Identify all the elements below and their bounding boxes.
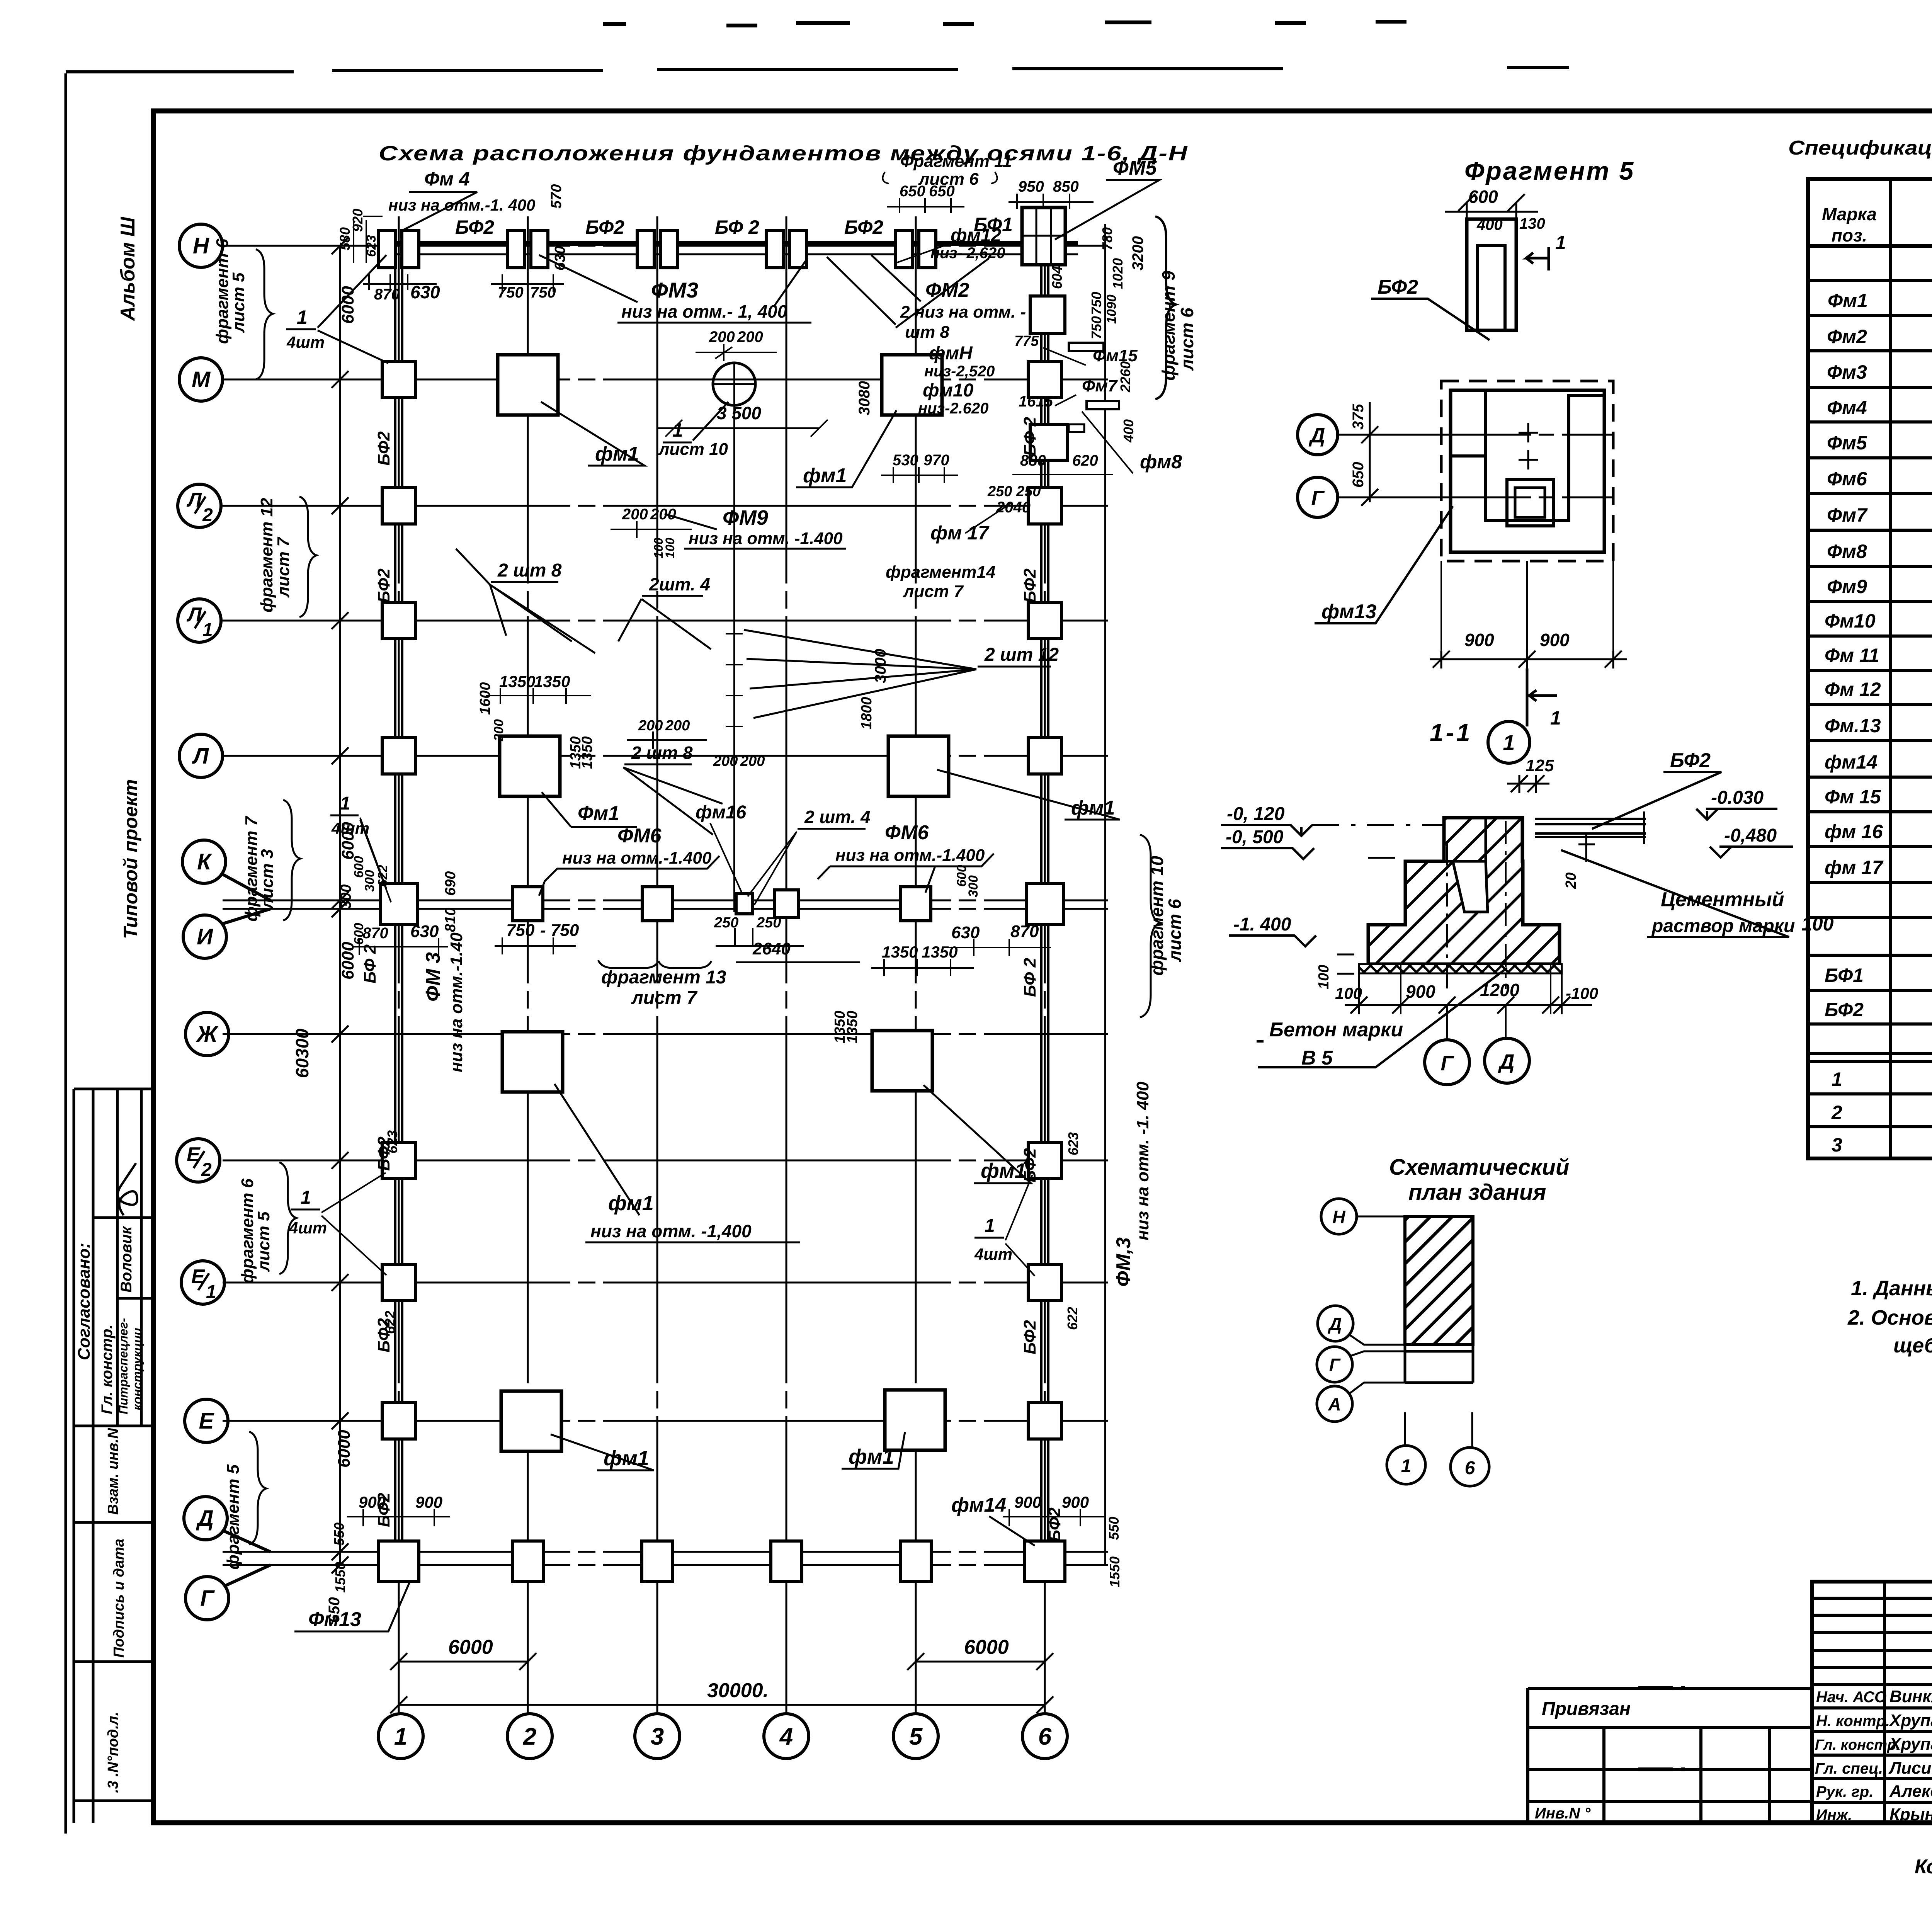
svg-text:623: 623 bbox=[1065, 1132, 1081, 1155]
svg-text:1: 1 bbox=[301, 1187, 311, 1208]
svg-text:БФ2: БФ2 bbox=[374, 431, 393, 466]
svg-text:Фм 12: Фм 12 bbox=[1825, 679, 1881, 700]
svg-text:лист 5: лист 5 bbox=[229, 272, 248, 333]
svg-text:200: 200 bbox=[622, 506, 648, 523]
cross bolts on x=1900 bbox=[726, 625, 743, 642]
svg-text:Копировал Коннова: Копировал Коннова bbox=[1915, 1856, 1932, 1878]
svg-text:БФ2: БФ2 bbox=[455, 216, 494, 238]
svg-text:Привязан: Привязан bbox=[1542, 1699, 1631, 1719]
svg-text:Фм5: Фм5 bbox=[1827, 432, 1867, 454]
svg-text:Фм9: Фм9 bbox=[1827, 576, 1867, 597]
inner pocket white bbox=[1453, 861, 1488, 912]
svg-text:125: 125 bbox=[1526, 756, 1554, 775]
svg-text:Гл. констр.: Гл. констр. bbox=[1815, 1737, 1900, 1753]
row lines bbox=[1808, 281, 1932, 1127]
svg-text:Алекова: Алекова bbox=[1889, 1782, 1932, 1801]
svg-text:775: 775 bbox=[1014, 333, 1039, 349]
svg-text:А: А bbox=[1328, 1394, 1341, 1414]
svg-text:В 5: В 5 bbox=[1301, 1047, 1333, 1069]
svg-text:250: 250 bbox=[987, 483, 1012, 500]
svg-text:Д: Д bbox=[196, 1506, 214, 1531]
svg-text:2: 2 bbox=[201, 1160, 212, 1180]
svg-text:ФМ6: ФМ6 bbox=[885, 822, 929, 844]
svg-text:Н: Н bbox=[1332, 1207, 1345, 1227]
svg-text:-100: -100 bbox=[1566, 984, 1598, 1002]
svg-text:Цементный: Цементный bbox=[1661, 888, 1784, 911]
svg-text:Бетон марки: Бетон марки bbox=[1269, 1019, 1403, 1041]
svg-text:100: 100 bbox=[663, 538, 677, 558]
sheet outer border left bbox=[65, 73, 67, 1834]
svg-text:К: К bbox=[197, 849, 212, 874]
svg-text:Фм.13: Фм.13 bbox=[1825, 715, 1881, 737]
svg-text:Ж: Ж bbox=[196, 1022, 219, 1047]
svg-text:2 шт 8: 2 шт 8 bbox=[497, 560, 562, 581]
svg-text:Гл. спец.: Гл. спец. bbox=[1815, 1760, 1883, 1777]
svg-text:870: 870 bbox=[374, 286, 400, 303]
solid square bbox=[1451, 390, 1604, 552]
svg-text:4шт: 4шт bbox=[286, 333, 325, 351]
svg-text:1020: 1020 bbox=[1110, 258, 1126, 289]
svg-text:1550: 1550 bbox=[1107, 1556, 1122, 1587]
row H paired footings bbox=[379, 230, 396, 268]
svg-text:фрагмент 13: фрагмент 13 bbox=[601, 967, 726, 988]
svg-text:БФ 2: БФ 2 bbox=[1020, 417, 1039, 456]
svg-text:100: 100 bbox=[1316, 965, 1332, 989]
sheet outer border top (dashed scan) bbox=[66, 68, 1569, 72]
svg-text:200: 200 bbox=[709, 328, 735, 345]
svg-text:920: 920 bbox=[350, 209, 366, 232]
vertical foundation beams axis 1 and 6 bbox=[395, 255, 402, 1552]
svg-text:низ на отм.-1. 400: низ на отм.-1. 400 bbox=[388, 196, 535, 214]
svg-text:фм8: фм8 bbox=[1140, 451, 1182, 473]
svg-text:1600: 1600 bbox=[477, 682, 493, 715]
svg-text:низ на отм. -1,400: низ на отм. -1,400 bbox=[590, 1221, 752, 1241]
svg-text:Альбом Ш: Альбом Ш bbox=[117, 216, 139, 321]
svg-text:2640: 2640 bbox=[752, 939, 791, 958]
svg-text:фм1: фм1 bbox=[595, 443, 639, 465]
svg-text:БФ 2: БФ 2 bbox=[1020, 958, 1039, 997]
svg-text:М: М bbox=[192, 367, 211, 392]
svg-text:фм12: фм12 bbox=[951, 225, 1002, 246]
svg-text:200: 200 bbox=[638, 718, 663, 734]
svg-text:Фм7: Фм7 bbox=[1827, 504, 1868, 526]
svg-text:Фм10: Фм10 bbox=[1825, 610, 1876, 632]
svg-text:Инж.: Инж. bbox=[1816, 1806, 1852, 1823]
svg-text:130: 130 bbox=[1519, 215, 1545, 232]
svg-text:750: 750 bbox=[1088, 292, 1104, 315]
dashed outer square bbox=[1441, 381, 1613, 561]
svg-text:1800: 1800 bbox=[859, 697, 875, 730]
svg-text:200: 200 bbox=[650, 506, 676, 523]
svg-text:250: 250 bbox=[756, 915, 781, 931]
svg-text:Фрагмент 5: Фрагмент 5 bbox=[1464, 156, 1635, 185]
svg-text:2: 2 bbox=[1831, 1102, 1842, 1123]
svg-text:лист 6: лист 6 bbox=[1165, 899, 1185, 962]
fm10 footing on axis 6 bbox=[1030, 424, 1067, 460]
svg-text:Питраспецлег-: Питраспецлег- bbox=[116, 1318, 130, 1414]
bottom column circles bbox=[378, 1714, 1067, 1759]
svg-text:Г: Г bbox=[1311, 486, 1325, 510]
svg-text:фм 16: фм 16 bbox=[1825, 821, 1883, 842]
svg-text:Типовой проект: Типовой проект bbox=[120, 779, 141, 939]
svg-text:900: 900 bbox=[1540, 630, 1570, 650]
svg-text:лист 7: лист 7 bbox=[274, 536, 293, 598]
svg-text:поз.: поз. bbox=[1832, 225, 1867, 245]
svg-text:лист 5: лист 5 bbox=[254, 1211, 273, 1272]
svg-text:лист 7: лист 7 bbox=[631, 988, 698, 1008]
svg-text:1350: 1350 bbox=[882, 943, 918, 961]
bottom circles 1 6 bbox=[1405, 1412, 1472, 1447]
svg-text:Г: Г bbox=[200, 1586, 215, 1611]
svg-text:фм13: фм13 bbox=[1321, 600, 1376, 623]
M row section circle bbox=[713, 363, 755, 405]
svg-text:БФ2: БФ2 bbox=[585, 216, 624, 238]
svg-text:Д: Д bbox=[1327, 1314, 1342, 1334]
svg-text:Фрагмент 11: Фрагмент 11 bbox=[900, 152, 1012, 171]
svg-text:-0, 120: -0, 120 bbox=[1227, 804, 1285, 824]
svg-text:20: 20 bbox=[1563, 873, 1579, 889]
svg-text:375: 375 bbox=[1350, 404, 1367, 430]
svg-text:низ на отм. -1. 400: низ на отм. -1. 400 bbox=[1133, 1082, 1152, 1240]
svg-text:конструкции: конструкции bbox=[130, 1328, 144, 1410]
svg-text:1. Данный лист рассматрива: 1. Данный лист рассматривать совместно с… bbox=[1851, 1277, 1932, 1300]
svg-text:ФМ5: ФМ5 bbox=[1113, 157, 1157, 179]
svg-text:ФМ,3: ФМ,3 bbox=[1112, 1237, 1135, 1287]
big Fm1 squares bbox=[498, 355, 558, 415]
bottom dims bbox=[1359, 964, 1562, 1014]
svg-text:Согласовано:: Согласовано: bbox=[75, 1243, 94, 1360]
svg-text:622: 622 bbox=[1065, 1307, 1080, 1330]
svg-text:Спецификация к схеме располож: Спецификация к схеме расположения фундам… bbox=[1788, 137, 1932, 159]
svg-text:650: 650 bbox=[1350, 462, 1367, 488]
svg-text:1: 1 bbox=[1550, 707, 1561, 729]
svg-text:200: 200 bbox=[665, 718, 690, 734]
svg-text:-0,480: -0,480 bbox=[1724, 825, 1777, 846]
svg-text:Е: Е bbox=[199, 1408, 215, 1434]
svg-text:лист 7: лист 7 bbox=[903, 582, 964, 601]
svg-text:2260: 2260 bbox=[1117, 361, 1133, 393]
svg-text:фм1: фм1 bbox=[803, 464, 847, 487]
svg-text:БФ2: БФ2 bbox=[374, 568, 393, 603]
svg-text:870: 870 bbox=[1010, 922, 1039, 941]
dashed floor level line bbox=[1312, 825, 1445, 858]
svg-text:1: 1 bbox=[297, 306, 308, 328]
K/I row footings bbox=[381, 884, 417, 924]
svg-text:Нач. АСО: Нач. АСО bbox=[1816, 1689, 1886, 1706]
svg-text:Д: Д bbox=[1309, 424, 1325, 447]
svg-text:низ на отм.-1.400: низ на отм.-1.400 bbox=[835, 846, 985, 865]
left small table bbox=[1528, 1688, 1812, 1823]
svg-text:БФ2: БФ2 bbox=[374, 1136, 393, 1171]
svg-text:30000.: 30000. bbox=[707, 1679, 769, 1702]
svg-text:Фм4: Фм4 bbox=[1827, 397, 1867, 418]
svg-text:Крынкина: Крынкина bbox=[1889, 1805, 1932, 1824]
svg-text:1200: 1200 bbox=[1480, 980, 1520, 1000]
svg-text:1: 1 bbox=[1503, 730, 1515, 755]
svg-text:3080: 3080 bbox=[856, 381, 873, 415]
svg-text:1-1: 1-1 bbox=[1430, 719, 1473, 747]
svg-text:Гл. констр.: Гл. констр. bbox=[99, 1325, 116, 1414]
svg-text:низ на отм. -1.400: низ на отм. -1.400 bbox=[689, 529, 843, 548]
svg-text:3: 3 bbox=[651, 1723, 664, 1750]
svg-text:900: 900 bbox=[1464, 630, 1494, 650]
svg-text:200: 200 bbox=[713, 753, 738, 769]
vertical dimension chain bbox=[323, 237, 357, 1573]
svg-text:Фм 11: Фм 11 bbox=[1825, 645, 1879, 666]
BF2 beam right bbox=[1535, 811, 1646, 844]
svg-text:620: 620 bbox=[1072, 452, 1098, 469]
svg-text:630: 630 bbox=[410, 922, 439, 941]
svg-text:750: 750 bbox=[1088, 316, 1104, 339]
svg-text:1: 1 bbox=[1555, 232, 1566, 253]
svg-text:6000: 6000 bbox=[338, 942, 357, 980]
column lines bbox=[1890, 179, 1932, 1158]
svg-text:750: 750 bbox=[506, 921, 535, 940]
header bottom bbox=[1808, 244, 1932, 248]
svg-text:Фм8: Фм8 bbox=[1827, 541, 1867, 562]
svg-text:ФМ3: ФМ3 bbox=[651, 278, 698, 302]
svg-text:БФ2: БФ2 bbox=[1020, 1148, 1039, 1182]
svg-text:фрагмент 9: фрагмент 9 bbox=[1158, 270, 1179, 381]
svg-text:2 шт. 4: 2 шт. 4 bbox=[804, 807, 871, 827]
svg-text:низ-2.620: низ-2.620 bbox=[918, 400, 988, 417]
svg-text:1: 1 bbox=[985, 1216, 995, 1236]
svg-text:БФ2: БФ2 bbox=[1045, 1507, 1064, 1542]
svg-text:ФМ6: ФМ6 bbox=[617, 825, 662, 847]
svg-text:шт 8: шт 8 bbox=[905, 323, 949, 342]
svg-text:970: 970 bbox=[923, 452, 949, 469]
svg-text:Инв.N °: Инв.N ° bbox=[1535, 1805, 1591, 1822]
svg-text:план здания: план здания bbox=[1408, 1180, 1546, 1205]
svg-text:фрагмент 12: фрагмент 12 bbox=[257, 498, 276, 612]
svg-text:ФМ9: ФМ9 bbox=[723, 506, 768, 529]
svg-text:Г: Г bbox=[1329, 1355, 1341, 1375]
svg-text:БФ2: БФ2 bbox=[1670, 749, 1711, 772]
svg-text:3200: 3200 bbox=[1129, 236, 1146, 270]
svg-text:3 500: 3 500 bbox=[717, 403, 762, 423]
svg-text:100: 100 bbox=[1335, 984, 1362, 1002]
svg-text:Воловик: Воловик bbox=[118, 1226, 135, 1293]
svg-text:Лисичкин: Лисичкин bbox=[1888, 1759, 1932, 1778]
svg-text:300: 300 bbox=[338, 885, 354, 909]
svg-text:650: 650 bbox=[929, 183, 955, 200]
svg-text:Схематический: Схематический bbox=[1389, 1155, 1569, 1180]
svg-text:низ-2,520: низ-2,520 bbox=[924, 363, 995, 380]
svg-text:750: 750 bbox=[530, 284, 556, 301]
svg-text:щебнем.: щебнем. bbox=[1893, 1334, 1932, 1357]
fm12 footing on axis 6 bbox=[1030, 296, 1065, 333]
data rows: mark / oboz / name / qty / mass bbox=[1825, 288, 1932, 1156]
svg-text:БФ2: БФ2 bbox=[374, 1318, 393, 1352]
svg-text:300: 300 bbox=[362, 870, 377, 892]
edge footings on axes 1 and 6 bbox=[382, 361, 415, 398]
svg-text:БФ2: БФ2 bbox=[844, 216, 883, 238]
svg-text:Г: Г bbox=[1440, 1052, 1454, 1075]
svg-text:фрагмент 5: фрагмент 5 bbox=[224, 1464, 243, 1570]
svg-text:БФ 2: БФ 2 bbox=[361, 944, 379, 983]
svg-text:900: 900 bbox=[415, 1493, 442, 1511]
svg-text:Фм3: Фм3 bbox=[1827, 361, 1867, 383]
svg-text:- 750: - 750 bbox=[540, 921, 579, 940]
svg-text:БФ1: БФ1 bbox=[1825, 964, 1864, 986]
svg-text:Подпись и дата: Подпись и дата bbox=[111, 1539, 127, 1658]
axis letter circles bbox=[177, 224, 270, 1620]
svg-text:400: 400 bbox=[1121, 419, 1136, 443]
svg-text:лист 6: лист 6 bbox=[1177, 308, 1197, 371]
svg-text:622: 622 bbox=[376, 865, 390, 887]
horizontal axis lines bbox=[223, 246, 1108, 1565]
svg-text:900: 900 bbox=[1062, 1493, 1089, 1511]
svg-text:лист 3: лист 3 bbox=[258, 849, 277, 910]
svg-text:2: 2 bbox=[202, 505, 213, 526]
svg-text:1: 1 bbox=[1401, 1456, 1412, 1476]
svg-text:630: 630 bbox=[951, 923, 980, 942]
svg-text:3000: 3000 bbox=[872, 649, 889, 683]
ground hatched strip bbox=[1359, 964, 1562, 973]
svg-text:БФ 2: БФ 2 bbox=[715, 216, 759, 238]
svg-text:ФМ 3: ФМ 3 bbox=[422, 952, 444, 1002]
svg-text:870: 870 bbox=[362, 925, 388, 942]
svg-text:Фм13: Фм13 bbox=[308, 1608, 361, 1631]
svg-text:Взам. инв.N: Взам. инв.N bbox=[105, 1427, 121, 1515]
svg-text:И: И bbox=[197, 924, 213, 949]
svg-text:Д: Д bbox=[1498, 1050, 1515, 1073]
svg-text:фм 17: фм 17 bbox=[930, 522, 990, 544]
svg-text:2040: 2040 bbox=[996, 499, 1031, 516]
signature table bbox=[1812, 1582, 1932, 1823]
svg-text:.3 .N°под.л.: .3 .N°под.л. bbox=[105, 1712, 121, 1793]
svg-text:фм16: фм16 bbox=[696, 802, 747, 823]
vertical joint lines bbox=[1405, 818, 1486, 861]
axis circles G D bbox=[1447, 1005, 1506, 1039]
svg-text:200: 200 bbox=[740, 753, 765, 769]
svg-text:4шт: 4шт bbox=[289, 1219, 327, 1237]
svg-text:3: 3 bbox=[1832, 1134, 1842, 1156]
svg-text:низ на отм.-1.400: низ на отм.-1.400 bbox=[562, 849, 712, 867]
svg-text:630: 630 bbox=[410, 282, 440, 302]
svg-text:6000: 6000 bbox=[448, 1636, 493, 1658]
svg-text:570: 570 bbox=[548, 184, 565, 209]
svg-text:-1. 400: -1. 400 bbox=[1233, 914, 1291, 935]
vertical column axis lines bbox=[399, 216, 1105, 1713]
svg-text:780: 780 bbox=[1099, 227, 1115, 250]
svg-text:низ на отм.- 1, 400: низ на отм.- 1, 400 bbox=[621, 301, 787, 321]
circle 1 bbox=[1488, 721, 1530, 763]
svg-text:200: 200 bbox=[492, 719, 506, 742]
svg-text:900: 900 bbox=[1014, 1493, 1041, 1511]
stamp boxes bbox=[74, 1089, 153, 1823]
svg-text:1350: 1350 bbox=[579, 736, 595, 769]
bottom dimensions bbox=[390, 1653, 1053, 1713]
svg-text:1350: 1350 bbox=[844, 1010, 861, 1043]
svg-text:фм14: фм14 bbox=[951, 1494, 1006, 1516]
top column rect with beam bbox=[1467, 219, 1516, 330]
building outline bbox=[1405, 1216, 1473, 1345]
axis circles bbox=[1321, 1199, 1357, 1234]
svg-text:1350: 1350 bbox=[534, 672, 570, 691]
svg-text:6000: 6000 bbox=[338, 286, 357, 324]
svg-text:Рук. гр.: Рук. гр. bbox=[1816, 1783, 1873, 1800]
spec table grid bbox=[1808, 111, 1932, 1158]
svg-text:550: 550 bbox=[1106, 1517, 1122, 1540]
anchor small square bbox=[1507, 480, 1554, 526]
section mark 1 bottom bbox=[1527, 668, 1557, 726]
svg-text:лист 10: лист 10 bbox=[658, 440, 728, 459]
svg-text:810: 810 bbox=[442, 908, 459, 932]
svg-text:604: 604 bbox=[1049, 266, 1065, 289]
D / G axis circles bbox=[1298, 415, 1338, 455]
center crosses bbox=[1519, 423, 1538, 469]
svg-text:Л: Л bbox=[192, 743, 209, 769]
svg-text:250: 250 bbox=[1016, 483, 1041, 500]
svg-text:2 шт 8: 2 шт 8 bbox=[631, 743, 693, 763]
svg-text:фрагмент14: фрагмент14 bbox=[886, 563, 995, 582]
svg-text:фм1: фм1 bbox=[981, 1159, 1026, 1182]
svg-text:1615: 1615 bbox=[1019, 393, 1053, 410]
svg-text:Схема расположения фундаментов: Схема расположения фундаментов между ося… bbox=[379, 142, 1188, 165]
svg-text:фм 17: фм 17 bbox=[1825, 857, 1884, 878]
svg-text:1: 1 bbox=[672, 419, 683, 441]
svg-text:6: 6 bbox=[1465, 1458, 1475, 1478]
svg-text:БФ2: БФ2 bbox=[1020, 568, 1039, 603]
svg-text:Винклер: Винклер bbox=[1889, 1687, 1932, 1706]
svg-text:850: 850 bbox=[1053, 178, 1079, 195]
svg-text:1: 1 bbox=[340, 793, 350, 814]
svg-text:-0, 500: -0, 500 bbox=[1226, 827, 1284, 847]
svg-text:1: 1 bbox=[1832, 1068, 1842, 1090]
svg-text:950: 950 bbox=[1018, 178, 1044, 195]
svg-text:300: 300 bbox=[966, 875, 981, 897]
svg-text:2: 2 bbox=[523, 1723, 536, 1750]
concrete section body: column + mid + base with hatch bbox=[1368, 818, 1560, 964]
svg-text:низ на отм.-1.40: низ на отм.-1.40 bbox=[447, 932, 466, 1072]
svg-text:Марка: Марка bbox=[1822, 204, 1877, 224]
svg-text:4шт: 4шт bbox=[974, 1245, 1012, 1263]
svg-text:1: 1 bbox=[202, 620, 213, 640]
svg-text:Фм 4: Фм 4 bbox=[424, 168, 470, 190]
svg-text:60300: 60300 bbox=[292, 1029, 312, 1078]
svg-text:Фм7: Фм7 bbox=[1082, 376, 1118, 395]
svg-text:раствор марки: раствор марки bbox=[1651, 916, 1795, 936]
svg-text:1350: 1350 bbox=[499, 672, 535, 691]
svg-text:Фм6: Фм6 bbox=[1827, 468, 1867, 490]
svg-text:2шт. 4: 2шт. 4 bbox=[649, 574, 710, 594]
svg-text:1: 1 bbox=[394, 1723, 407, 1750]
svg-text:Фм1: Фм1 bbox=[1828, 290, 1868, 311]
svg-text:6000: 6000 bbox=[964, 1636, 1009, 1658]
section mark 1 top bbox=[1526, 247, 1549, 270]
svg-text:1550: 1550 bbox=[332, 1562, 348, 1593]
svg-text:-0.030: -0.030 bbox=[1711, 788, 1764, 808]
svg-text:фм10: фм10 bbox=[923, 380, 974, 401]
fold dash-dot marks bbox=[1638, 1688, 1685, 1823]
svg-text:БФ2: БФ2 bbox=[1825, 999, 1864, 1021]
svg-text:2 шт 12: 2 шт 12 bbox=[984, 645, 1059, 665]
header texts bbox=[1822, 198, 1932, 245]
svg-text:550: 550 bbox=[331, 1522, 347, 1546]
svg-text:БФ2: БФ2 bbox=[374, 1493, 393, 1527]
svg-text:5: 5 bbox=[909, 1723, 923, 1750]
svg-text:1350: 1350 bbox=[922, 943, 957, 961]
svg-text:БФ2: БФ2 bbox=[1020, 1320, 1039, 1354]
svg-text:1: 1 bbox=[206, 1282, 216, 1302]
svg-text:фм1: фм1 bbox=[849, 1445, 894, 1468]
svg-text:БФ2: БФ2 bbox=[1378, 276, 1418, 298]
svg-text:690: 690 bbox=[442, 871, 459, 896]
inner pocket bbox=[1486, 390, 1604, 520]
svg-text:200: 200 bbox=[737, 328, 763, 345]
svg-text:6000: 6000 bbox=[338, 822, 357, 860]
